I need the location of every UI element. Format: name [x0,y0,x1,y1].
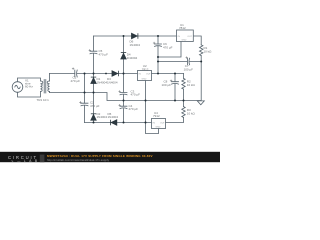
svg-text:OUT: OUT [187,36,192,38]
svg-text:470 µF: 470 µF [99,53,109,57]
svg-text:1N4004: 1N4004 [107,81,118,85]
svg-text:470 µF: 470 µF [163,45,173,49]
svg-text:10 kΩ: 10 kΩ [187,83,196,87]
svg-text:470 µF: 470 µF [90,104,100,108]
svg-text:OUT: OUT [160,122,165,124]
svg-text:10 kΩ: 10 kΩ [187,111,196,115]
svg-text:1N4004: 1N4004 [127,56,138,60]
svg-text:1N4004: 1N4004 [130,43,141,47]
svg-text:100 µF: 100 µF [162,83,172,87]
svg-text:10 kΩ: 10 kΩ [204,49,213,53]
svg-text:60 Hz: 60 Hz [25,85,33,89]
svg-text:1N4004: 1N4004 [108,115,119,119]
svg-text:7812: 7812 [179,26,186,30]
svg-text:100 µF: 100 µF [184,67,194,71]
svg-text:470 µF: 470 µF [71,79,81,83]
svg-text:1N4004: 1N4004 [97,115,108,119]
svg-text:GND: GND [182,40,187,42]
svg-text:7812: 7812 [142,67,149,71]
svg-text:470 µF: 470 µF [129,107,139,111]
svg-text:1N4004: 1N4004 [97,81,108,85]
svg-text:470 µF: 470 µF [131,93,141,97]
svg-text:OUT: OUT [146,73,151,75]
svg-text:GND: GND [142,79,147,81]
svg-text:TR1 10:1: TR1 10:1 [37,98,50,102]
svg-text:GND: GND [156,127,161,129]
svg-text:7912: 7912 [153,114,160,118]
svg-text:http:circuitlab.com/c/mwwztava: http:circuitlab.com/c/mwwztava9/dual-17v… [47,158,110,162]
